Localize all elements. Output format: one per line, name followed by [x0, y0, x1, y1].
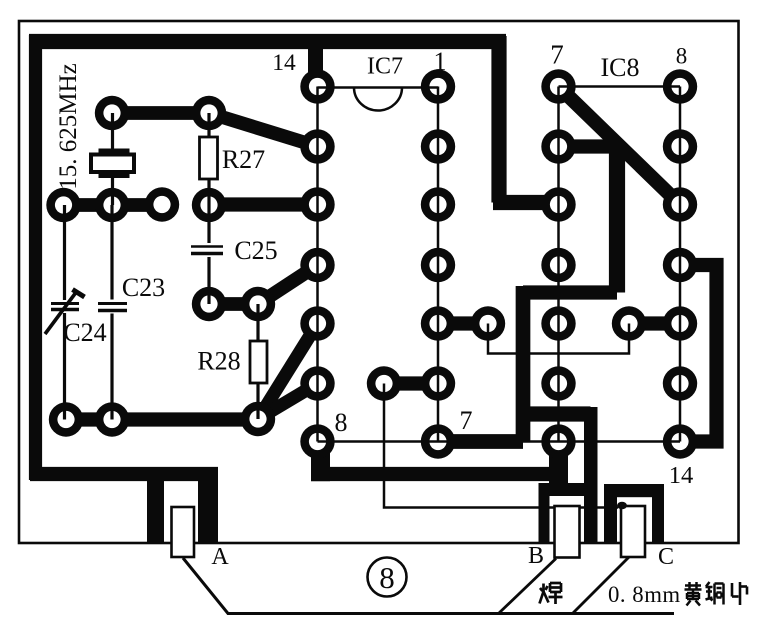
svg-text:C24: C24: [63, 318, 106, 347]
svg-text:C: C: [658, 544, 674, 570]
svg-text:14: 14: [272, 50, 296, 76]
svg-text:15. 625MHz: 15. 625MHz: [55, 63, 82, 189]
svg-text:8: 8: [676, 44, 688, 69]
svg-text:B: B: [528, 543, 544, 569]
svg-text:8: 8: [379, 560, 395, 595]
svg-text:IC8: IC8: [601, 53, 640, 82]
svg-text:A: A: [211, 544, 229, 570]
svg-text:R27: R27: [222, 145, 265, 174]
svg-text:0. 8mm: 0. 8mm: [608, 582, 681, 607]
svg-text:7: 7: [550, 40, 564, 70]
svg-text:14: 14: [669, 462, 694, 489]
svg-text:8: 8: [335, 408, 348, 437]
svg-text:7: 7: [460, 406, 473, 435]
svg-text:R28: R28: [197, 347, 240, 376]
svg-text:C23: C23: [122, 273, 165, 302]
svg-text:C25: C25: [234, 236, 277, 265]
svg-text:IC7: IC7: [367, 54, 403, 80]
svg-text:1: 1: [434, 47, 447, 76]
